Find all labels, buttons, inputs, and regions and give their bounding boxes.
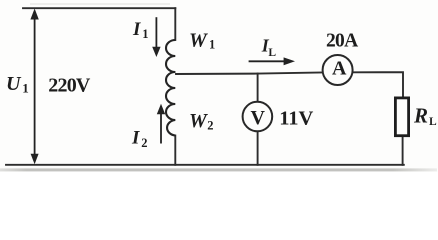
svg-text:20A: 20A <box>326 31 358 52</box>
wire center tap to ammeter <box>176 73 323 75</box>
svg-text:I: I <box>131 128 140 149</box>
svg-text:W: W <box>189 29 208 51</box>
wire winding bottom lead <box>174 136 176 165</box>
svg-text:I: I <box>132 19 141 40</box>
svg-text:2: 2 <box>141 136 147 150</box>
current arrow I1 (down) <box>152 17 160 57</box>
svg-text:L: L <box>429 116 437 128</box>
resistor RL (rectangle) <box>395 98 408 136</box>
wire bottom (full width) <box>6 164 404 166</box>
wire voltmeter bottom lead <box>257 131 259 165</box>
svg-text:2: 2 <box>207 118 213 132</box>
wire resistor bottom lead <box>402 137 404 165</box>
voltage arrow U1 (double-headed, source branch) <box>30 9 38 165</box>
svg-text:1: 1 <box>22 81 29 96</box>
voltmeter V (circle + letter) <box>243 102 273 132</box>
svg-text:A: A <box>332 58 347 80</box>
wire top (source top to winding top) <box>23 7 175 9</box>
svg-text:1: 1 <box>142 27 148 41</box>
svg-text:V: V <box>250 107 265 129</box>
wire winding top lead <box>174 8 176 40</box>
winding W1 (upper half of autotransformer coil) <box>166 40 175 72</box>
svg-text:220V: 220V <box>48 75 91 97</box>
wire ammeter to right corner <box>353 72 403 96</box>
svg-text:U: U <box>6 73 22 95</box>
svg-text:1: 1 <box>209 38 215 52</box>
current arrow I2 (up) <box>157 104 165 144</box>
faint scan ghost above top wire <box>30 3 170 4</box>
svg-text:11V: 11V <box>279 107 313 129</box>
wire voltmeter top lead <box>257 74 259 102</box>
svg-text:L: L <box>268 47 276 59</box>
svg-text:R: R <box>413 103 428 127</box>
current arrow IL (right) <box>249 57 295 65</box>
svg-text:W: W <box>189 110 208 132</box>
ammeter A (circle + letter) <box>323 55 353 85</box>
winding W2 (lower half of autotransformer coil) <box>166 72 175 136</box>
